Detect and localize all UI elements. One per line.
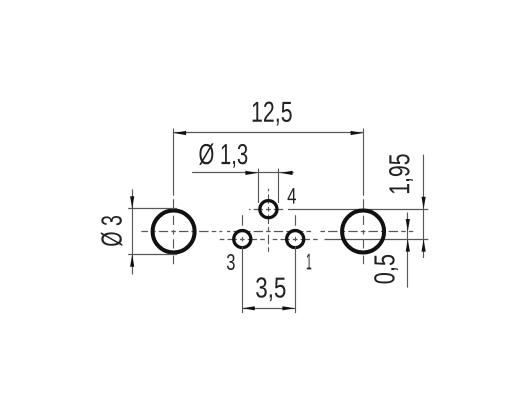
dimension line Ø1,3: [192, 172, 294, 174]
center line vertical contact 1: [295, 215, 297, 226]
center line horizontal at left hole: [141, 231, 222, 233]
label contact 1: [307, 254, 312, 270]
extension line 3,5 right: [295, 247, 297, 314]
arrow Ø3 bottom: [130, 254, 134, 266]
dimension line Ø3: [132, 189, 134, 274]
center line vertical contact 4: [268, 189, 270, 255]
label contact 4: [288, 188, 297, 204]
arrow Ø1,3 left: [245, 171, 258, 175]
arrow 12,5 right: [351, 131, 364, 135]
center line horizontal contact 4 left arm: [249, 209, 284, 211]
contact hole 4: [260, 201, 277, 218]
extension line right from contact 1: [325, 239, 429, 241]
extension line Ø3 bottom: [128, 254, 177, 256]
arrow 0,5 top: [406, 219, 410, 232]
dimension line 0,5: [407, 213, 409, 288]
dimension line 12,5: [174, 132, 364, 134]
extension line Ø3 top: [128, 208, 177, 210]
dimension line 3,5: [242, 308, 295, 310]
arrow 3,5 right: [282, 306, 295, 310]
label contact 3: [227, 254, 235, 270]
arrow Ø3 top: [130, 196, 134, 209]
arrow Ø1,3 right: [280, 171, 293, 175]
contact hole 1: [287, 231, 304, 248]
arrow 1,95 top: [422, 197, 426, 210]
dimension text 0,5: [374, 255, 398, 284]
dimension text 12,5: [253, 102, 292, 126]
dimension text Ø 1,3: [199, 143, 247, 167]
hole right Ø3: [342, 211, 384, 253]
center line horizontal contact 1: [272, 239, 321, 241]
center line horizontal contact 3: [219, 239, 266, 241]
extension line Ø1,3 right: [278, 169, 280, 203]
dimension text 1,95: [389, 154, 413, 193]
center line vertical left hole (extension of 12,5): [173, 129, 175, 196]
arrow 12,5 left: [174, 131, 187, 135]
arrow 0,5 bottom: [406, 239, 410, 252]
arrow 1,95 bottom: [422, 239, 426, 252]
center line vertical right hole chain: [363, 199, 365, 208]
center line vertical right hole (extension of 12,5): [363, 129, 365, 196]
center line horizontal middle: [227, 231, 313, 233]
extension line Ø1,3 left: [258, 169, 260, 203]
dimension line 1,95: [423, 155, 425, 258]
contact hole 3: [234, 231, 251, 248]
dimension text Ø 3: [101, 216, 123, 246]
hole left Ø3: [153, 211, 195, 253]
center line vertical left hole chain: [173, 199, 175, 208]
center line vertical contact 3: [242, 215, 244, 226]
center line horizontal at right hole: [318, 231, 414, 233]
dimension text 3,5: [256, 277, 285, 301]
extension line 3,5 left: [242, 247, 244, 314]
arrow 3,5 left: [242, 306, 255, 310]
extension line right from contact 4: [288, 209, 428, 211]
